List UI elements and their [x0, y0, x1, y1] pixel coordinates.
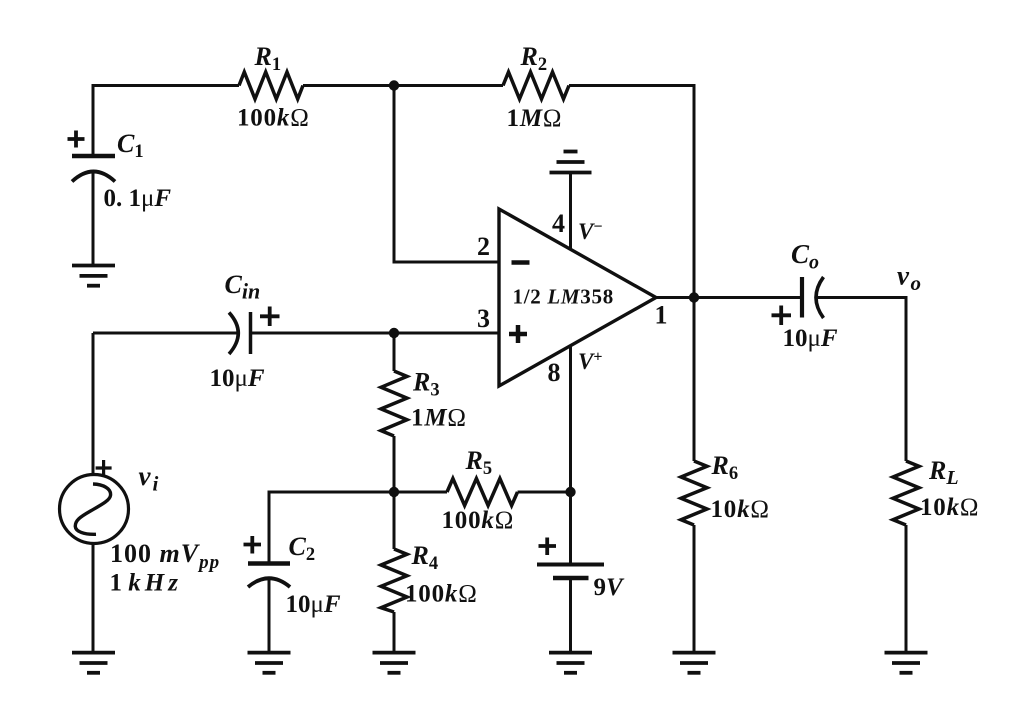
capacitor C2 top plate — [248, 561, 290, 566]
svg-text:Cin: Cin — [225, 270, 261, 304]
ground (R4) — [373, 653, 416, 673]
capacitor Co curved plate — [816, 277, 824, 318]
resistor R1 — [239, 72, 303, 99]
svg-text:1: 1 — [655, 301, 668, 330]
svg-text:R6: R6 — [711, 451, 739, 484]
wire C1 to ground — [92, 173, 95, 266]
wire R6 to ground — [693, 525, 696, 652]
resistor R6 — [681, 461, 707, 525]
op-amp U1 triangle — [499, 209, 656, 386]
svg-text:100 mVpp: 100 mVpp — [110, 539, 220, 573]
plus sign (Co) — [772, 306, 792, 326]
ground (battery) — [549, 653, 592, 673]
plus sign (Cin) — [260, 307, 280, 327]
resistor RL — [893, 461, 919, 525]
wire pin3 node down to R3 — [393, 333, 396, 371]
svg-text:Co: Co — [791, 239, 819, 274]
svg-text:RL: RL — [928, 456, 959, 489]
svg-text:1/2 LM358: 1/2 LM358 — [513, 285, 614, 309]
ground (RL) — [885, 653, 928, 673]
resistor R2 — [503, 72, 569, 99]
ground (vi) — [72, 653, 115, 673]
node junction pin3/R3 — [389, 328, 399, 338]
resistor R5 — [447, 479, 518, 506]
plus sign (C1) — [68, 131, 85, 148]
svg-text:C2: C2 — [289, 532, 316, 565]
capacitor C1 top plate — [72, 154, 115, 159]
svg-text:vo: vo — [897, 261, 921, 296]
capacitor C2 curved plate — [248, 578, 290, 587]
node junction R1/R2/pin2 — [389, 80, 399, 90]
wire RL to ground — [905, 525, 908, 652]
svg-text:4: 4 — [552, 209, 565, 238]
svg-text:8: 8 — [548, 358, 561, 387]
wire node to op-amp pin 2 — [394, 86, 499, 263]
plus sign (battery) — [539, 538, 557, 556]
wire vi to Cin input — [92, 333, 95, 475]
resistor R4 — [381, 549, 407, 612]
capacitor C1 curved plate — [72, 172, 115, 182]
svg-text:1MΩ: 1MΩ — [411, 405, 467, 432]
wire Co to vo corner — [816, 298, 906, 462]
svg-text:R5: R5 — [465, 446, 493, 479]
svg-text:10kΩ: 10kΩ — [920, 494, 979, 521]
svg-text:C1: C1 — [117, 129, 144, 162]
wire Cin to op-amp pin 3 — [251, 332, 500, 335]
svg-text:100kΩ: 100kΩ — [237, 105, 310, 132]
plus sign (C2) — [244, 536, 262, 554]
battery 9V negative plate — [553, 576, 589, 581]
wire R3 to lower node — [393, 436, 396, 492]
svg-text:100kΩ: 100kΩ — [442, 507, 515, 534]
ground (C1) — [72, 266, 115, 286]
battery 9V positive plate — [537, 563, 604, 567]
svg-text:3: 3 — [477, 304, 490, 333]
plus sign inside op-amp — [509, 325, 527, 343]
node junction output — [689, 292, 699, 302]
wire output node down to R6 — [693, 298, 696, 462]
svg-text:2: 2 — [477, 232, 490, 261]
svg-text:1 kHz: 1 kHz — [110, 570, 182, 597]
capacitor Cin straight plate — [249, 312, 253, 354]
svg-text:V+: V+ — [578, 349, 602, 375]
wire pin 8 to battery — [569, 346, 572, 565]
wire R4 to ground — [393, 612, 396, 652]
svg-text:R2: R2 — [520, 42, 548, 75]
plus sign (vi) — [96, 460, 112, 476]
svg-text:10μF: 10μF — [783, 325, 838, 352]
resistor R3 — [381, 371, 407, 436]
ground (R6) — [673, 653, 716, 673]
wire op-amp output to node — [656, 296, 694, 299]
sine wave inside vi — [75, 484, 110, 534]
wire vi to ground — [92, 544, 95, 653]
wire R2 to right rail — [569, 86, 694, 298]
inverted ground above op-amp — [550, 152, 592, 173]
wire top-left from C1 up to R1 — [93, 86, 239, 155]
svg-text:R4: R4 — [411, 541, 439, 574]
wire input to Cin — [93, 332, 239, 335]
minus sign inside op-amp — [512, 260, 530, 265]
wire R5 to pin8 rail — [518, 491, 571, 494]
svg-text:1MΩ: 1MΩ — [507, 105, 563, 132]
svg-text:9V: 9V — [594, 574, 626, 601]
wire ground to pin 4 — [569, 173, 572, 250]
svg-text:100kΩ: 100kΩ — [405, 581, 478, 608]
svg-text:10μF: 10μF — [210, 365, 265, 392]
source vi circle — [60, 475, 129, 544]
svg-text:0. 1μF: 0. 1μF — [104, 185, 172, 212]
capacitor Cin curved plate — [229, 313, 238, 355]
wire output node to Co — [694, 296, 802, 299]
svg-text:R1: R1 — [254, 42, 282, 75]
wire C2 to ground — [268, 579, 271, 653]
svg-text:10kΩ: 10kΩ — [711, 496, 770, 523]
wire C2 corner to R5 — [269, 492, 447, 564]
node junction R5/pin8/battery — [565, 487, 575, 497]
svg-text:vi: vi — [139, 461, 159, 496]
svg-text:R3: R3 — [412, 368, 440, 401]
svg-text:10μF: 10μF — [286, 591, 341, 618]
svg-text:V−: V− — [578, 219, 602, 245]
wire battery to ground — [569, 578, 572, 652]
node junction R3/R4/R5 — [389, 487, 399, 497]
wire node to R4 — [393, 492, 396, 549]
ground (C2) — [248, 653, 291, 673]
capacitor Co straight plate — [800, 277, 804, 318]
wire R1 to R2 — [303, 84, 503, 87]
